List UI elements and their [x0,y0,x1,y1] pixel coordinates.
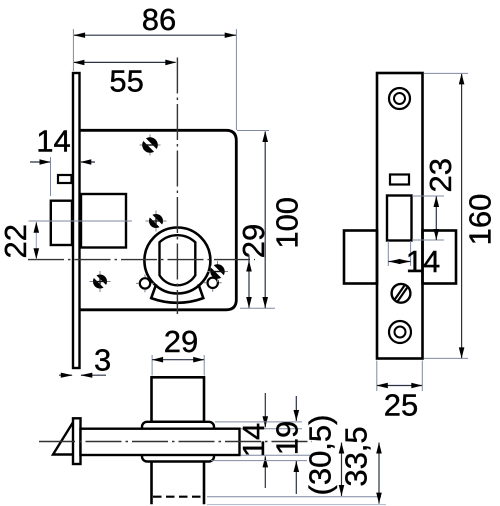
svg-text:19: 19 [270,421,305,455]
screw top [140,135,161,156]
lock case body [80,130,237,309]
svg-text:29: 29 [164,324,198,359]
dim 25 [377,361,423,392]
faceplate cross-section [73,418,81,464]
dim 3 [59,373,106,378]
svg-text:86: 86 [142,2,176,37]
vertical centerline of cylinder [176,58,178,315]
small hole left of cylinder [136,275,154,293]
svg-text:160: 160 [462,194,497,246]
svg-text:14: 14 [36,123,70,158]
latch guide box inside case [81,194,126,248]
svg-text:29: 29 [236,224,271,258]
bottom view centerline [39,441,312,443]
svg-text:55: 55 [109,63,143,98]
dim 23 [412,196,444,240]
hidden dashed line in lower housing [153,496,202,498]
left wing [344,231,377,284]
right wing [423,231,457,284]
dim 14 bottom view [241,393,311,488]
svg-text:22: 22 [0,224,33,258]
svg-text:33,5: 33,5 [339,426,374,486]
deadbolt slot [390,175,409,185]
cylinder inner profile [160,235,196,285]
faceplate side strip [73,73,80,368]
dim 33,5 [207,443,386,505]
screw mid-left [146,211,167,232]
small tab on faceplate [58,175,72,183]
latch opening [387,196,412,241]
dim 14 top-left [30,157,95,196]
small hole right of cylinder [204,274,222,292]
dim 29 bottom [152,355,204,376]
bottom mounting hole [389,321,411,343]
dim 14 right view [388,241,410,266]
svg-text:25: 25 [384,387,418,422]
latch bevel triangle [53,422,74,455]
dim 86 [73,29,236,130]
lower knob housing [152,462,205,505]
slotted screw on faceplate [392,284,411,303]
spindle shaft [81,429,240,455]
knob collar [142,422,214,462]
svg-text:14: 14 [236,423,271,457]
latch bolt protruding [51,201,72,245]
faceplate front [377,73,423,359]
svg-text:14: 14 [406,244,440,279]
dim 100 [237,131,275,309]
screw right of cylinder [207,261,228,282]
svg-text:100: 100 [270,197,305,249]
cylinder outer circle [144,228,210,294]
top mounting hole [389,88,410,109]
dim 55 [73,60,176,66]
svg-text:3: 3 [94,342,111,377]
svg-text:(30,5): (30,5) [303,415,338,496]
screw bottom-left [90,271,111,292]
dim (30,5) [207,443,381,497]
cylinder cam protrusion [151,284,203,303]
dim 29 right [246,255,252,309]
dim 22 [29,221,133,259]
svg-text:23: 23 [423,158,458,192]
dim 19 bottom view [211,396,307,494]
horizontal centerline of main view [28,259,255,261]
upper knob housing [152,377,205,422]
dim 160 [424,73,468,358]
